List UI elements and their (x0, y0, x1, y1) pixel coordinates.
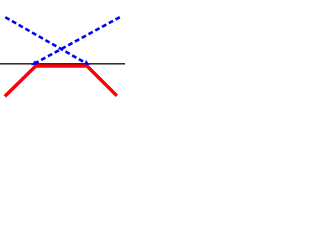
wave-pulse superposition figure (0, 0, 125, 114)
pulse 2 arrowhead (31, 60, 37, 65)
resultant pulse (red trapezoid) (5, 66, 117, 96)
string baseline (0, 63, 125, 65)
pulse 1 dashed line (top-left to lower-right) (5, 17, 85, 63)
pulse 2 dashed line (top-right to lower-left) (35, 17, 120, 63)
pulse 1 arrowhead (84, 60, 90, 65)
